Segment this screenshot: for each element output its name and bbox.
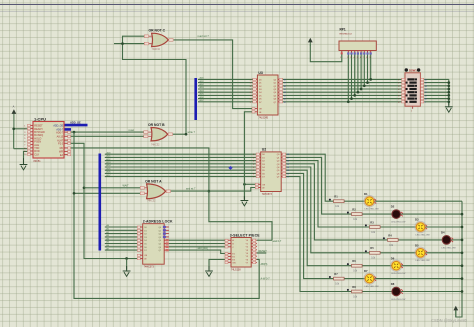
wire RP1 pin 8 drop [367,54,369,83]
wire LED D2 to collector [401,213,462,215]
resistor R8 [347,285,362,299]
junction RP1 drop 9 [369,78,372,81]
svg-text:3: 3 [253,157,254,159]
svg-text:A-W 0-7: A-W 0-7 [261,278,271,281]
svg-text:LED-YELLOW: LED-YELLOW [365,209,380,211]
ground below U2 [243,196,245,201]
svg-text:Q2: Q2 [159,234,162,236]
wire CPU RD to select-piece column [70,148,273,240]
bus vertical AD bus [194,78,197,120]
junction RP1 drop 7 [363,84,366,87]
wire U3 LE to ground column [244,112,252,200]
svg-text:11: 11 [284,102,286,104]
wire AD bus to U3 pin 6 [198,94,253,96]
wire U2 OE tap [244,183,256,185]
svg-text:CSDN @SkyLine80: CSDN @SkyLine80 [431,318,468,323]
svg-text:CLK: CLK [34,153,39,156]
svg-text:D2: D2 [259,86,262,88]
svg-text:U3: U3 [258,71,263,75]
wire AD bus to U3 pin 2 [198,82,253,84]
svg-text:4: 4 [250,86,251,88]
svg-text:7: 7 [24,145,25,147]
svg-text:1: 1 [24,125,25,127]
svg-text:EA: EA [60,154,64,157]
svg-text:ALE: ALE [34,144,39,147]
svg-text:74HC573: 74HC573 [262,193,273,196]
svg-text:R1: R1 [334,195,338,199]
wire CPU to OR NOT B input 1 [70,131,144,133]
cpu pin 3 left [28,131,33,133]
ground below DIP switch [448,103,450,107]
wire select piece RESET stub [257,252,266,254]
svg-text:4: 4 [253,161,254,163]
wire DIP switch pin 3 to ground rail [424,88,449,90]
svg-text:11: 11 [287,177,289,179]
svg-text:D2: D2 [144,234,147,236]
ground below CPU [23,158,25,165]
svg-text:13: 13 [287,170,289,172]
svg-text:D2: D2 [262,161,265,163]
wire data bus to address lock pin 5 [105,239,138,241]
svg-text:9: 9 [250,102,251,104]
svg-text:RESET: RESET [34,125,43,128]
cpu pin name texts left [34,125,45,157]
wire data bus to U2 pin 5 [105,166,256,168]
svg-text:D6: D6 [391,256,395,260]
svg-text:D4: D4 [441,231,445,235]
svg-text:12: 12 [284,99,286,101]
or-gate OR NOT B [151,128,173,141]
wire U2 Q5 staircase to LED row 6 [286,170,392,266]
svg-text:8: 8 [398,102,399,104]
svg-text:7: 7 [363,57,364,59]
LED D1 (yellow lit) [364,192,380,211]
or-gate OR NOT C [152,33,173,46]
wire RP1 common to VCC [310,45,342,62]
svg-text:ADD_OE: ADD_OE [53,125,63,128]
wire data bus to address lock pin 8 [105,249,138,251]
svg-text:7: 7 [398,99,399,101]
wire data bus to address lock pin 3 [105,233,138,235]
svg-text:R8: R8 [352,285,356,289]
cpu U1 body [33,122,64,159]
wire RP1 pin 3 drop [351,54,353,99]
svg-text:HOLD: HOLD [34,137,41,140]
svg-text:3: 3 [250,83,251,85]
wire CPU to OR NOT B input 2 [70,135,144,137]
svg-text:4: 4 [24,135,26,137]
wire data bus to address lock pin 1 [105,226,138,228]
svg-text:AD0-7: AD0-7 [56,131,64,134]
resistor R1 [329,195,344,209]
wire U3 B6 to DIP switch [283,98,402,100]
svg-text:8: 8 [250,99,251,101]
svg-text:LED-YELLOW: LED-YELLOW [365,286,380,288]
wire RP1 pin 4 drop [354,54,356,96]
wire DIP switch pin 1 to ground rail [424,82,449,84]
resistor R5 [365,246,380,260]
cpu pin 2 left [28,128,33,130]
svg-text:D7: D7 [364,269,368,273]
svg-text:12: 12 [425,92,427,94]
wire AD bus to U3 pin 1 [198,78,253,80]
svg-text:Q1: Q1 [277,157,280,159]
wire address lock Q1 to select piece [169,243,226,245]
svg-text:Q7: Q7 [159,250,162,252]
junction feeder to OR NOT A [83,186,86,189]
svg-text:D1: D1 [364,192,368,196]
svg-text:10k: 10k [371,232,376,234]
wire U3 B0 to DIP switch [283,78,402,80]
svg-text:R6: R6 [352,259,356,263]
svg-text:18: 18 [287,154,289,156]
svg-text:5: 5 [250,89,251,91]
cpu pin 1 left [28,124,33,126]
wire data bus to U2 pin 1 [105,153,256,155]
svg-text:write 7: write 7 [188,131,196,134]
svg-text:R5: R5 [370,246,374,250]
wire LED D6 to collector [401,265,462,267]
wire OR NOT C output to U3 OE [174,40,253,109]
svg-text:OR NOT A: OR NOT A [145,180,162,184]
svg-text:10k: 10k [353,271,358,273]
svg-text:2-ADRESS LOCK: 2-ADRESS LOCK [143,220,173,224]
svg-text:R4: R4 [388,233,392,237]
svg-text:9: 9 [253,177,254,179]
wire U2 Q3 staircase to LED row 4 [286,164,442,240]
wire LED D3 to collector [425,226,462,228]
LED D4 (off) [441,231,457,250]
svg-text:74HC32: 74HC32 [147,201,156,203]
svg-text:LED-YELLOW: LED-YELLOW [391,273,406,275]
svg-text:WR: WR [59,151,63,154]
LED D5 (yellow lit) [415,243,431,262]
svg-text:1: 1 [340,57,341,59]
LED D3 (yellow lit) [415,218,431,237]
LED D6 (yellow lit) [391,256,407,275]
wire DIP switch pin 0 to ground rail [424,78,449,80]
cpu pin 4 left [28,134,33,136]
bus ADD_OE from CPU [62,124,88,127]
svg-text:RD: RD [60,147,64,150]
svg-text:74LS245: 74LS245 [258,116,268,119]
LED D2 (off) [391,205,407,224]
svg-text:6: 6 [250,92,251,94]
svg-text:E1: E1 [232,254,234,256]
svg-text:3: 3 [398,86,399,88]
svg-text:15: 15 [284,89,286,91]
svg-text:6: 6 [24,141,26,143]
svg-text:5: 5 [24,138,26,140]
wire RP1 pin 5 drop [357,54,359,93]
svg-text:14: 14 [284,92,286,94]
junction RP1 drop 4 [353,94,356,97]
cpu pin 33 right [64,142,70,144]
wire CPU power rail to pin row [13,129,15,149]
wire OR NOT B output [173,133,186,135]
junction RP1 drop 3 [350,97,353,100]
svg-text:18: 18 [284,79,286,81]
resistor R7 [329,272,344,286]
junction collector row 8 [461,290,464,293]
wire RP1 pin 6 drop [360,54,362,90]
wire data bus to U2 pin 4 [105,163,256,165]
svg-text:10k: 10k [335,206,340,208]
svg-text:1: 1 [411,110,412,112]
wire U2 Q4 staircase to LED row 5 [286,167,416,253]
svg-text:BUSRQ: BUSRQ [34,134,43,137]
svg-text:4: 4 [398,89,399,91]
wire AD bus to U3 pin 5 [198,91,253,93]
junction collector row 2 [461,213,464,216]
wire data bus to U2 pin 7 [105,172,256,174]
wire U2 Q1 staircase to LED row 2 [286,157,392,214]
junction RP1 drop 2 [347,100,350,103]
cpu pin 34 right [64,147,70,149]
svg-text:10k: 10k [353,296,358,298]
wire U3 B1 to DIP switch [283,82,402,84]
svg-text:D1: D1 [144,230,147,232]
cpu pin 8 left [28,147,33,149]
wire feeder branch to OR NOT A input 1 [84,187,140,189]
svg-text:Q2: Q2 [274,86,277,88]
svg-text:Y2: Y2 [246,247,248,249]
svg-text:LED-YELLOW: LED-YELLOW [416,234,431,236]
svg-text:74LS138: 74LS138 [231,268,241,271]
svg-text:74HC32: 74HC32 [152,49,161,51]
svg-text:74HC573: 74HC573 [144,266,155,269]
svg-text:D1: D1 [259,83,262,85]
svg-text:Y1: Y1 [246,243,248,245]
junction OR NOT C inputs [121,42,124,45]
wire data bus to U2 pin 6 [105,169,256,171]
svg-text:17: 17 [287,157,289,159]
wire U3 B2 to DIP switch [283,85,402,87]
resistor R4 [383,233,398,247]
svg-text:7: 7 [253,170,254,172]
svg-text:Q1: Q1 [159,230,162,232]
wire data bus to address lock pin 6 [105,243,138,245]
svg-text:D8: D8 [391,282,395,286]
wire LED D1 to collector [374,200,462,202]
svg-text:OR NOT C: OR NOT C [149,29,166,33]
svg-text:5: 5 [253,164,254,166]
wire U2 Q2 staircase to LED row 3 [286,161,416,227]
wire U2 Q0 staircase to LED row 1 [286,154,365,201]
svg-text:10k: 10k [389,245,394,247]
svg-text:9: 9 [425,102,426,104]
svg-text:A: A [13,105,15,109]
svg-text:16: 16 [425,79,427,81]
wire U2 Q7 staircase to LED row 8 [286,177,392,292]
svg-text:DSW1: DSW1 [409,69,417,73]
svg-text:LED-YELLOW: LED-YELLOW [391,222,406,224]
junction CPU power rail [12,127,15,130]
svg-text:D7: D7 [259,102,262,104]
wire select piece E2 with ground [209,259,226,269]
svg-text:2: 2 [250,79,251,81]
svg-text:3: 3 [24,132,26,134]
wire DIP switch pin 6 to ground rail [424,98,449,100]
svg-text:5: 5 [398,92,399,94]
junction DIP ground rail [447,94,450,97]
svg-text:13: 13 [425,89,427,91]
svg-text:3-SELECT PIECE: 3-SELECT PIECE [230,233,260,237]
junction collector row 6 [461,264,464,267]
svg-text:11: 11 [425,95,427,97]
svg-text:ALAT: ALAT [57,139,64,142]
wire data bus to address lock pin 2 [105,229,138,231]
svg-text:RP1: RP1 [340,28,346,32]
svg-text:7: 7 [250,95,251,97]
junction DIP ground rail [447,100,450,103]
cpu pin 32 right [64,139,70,141]
wire data bus to U2 pin 8 [105,176,256,178]
svg-text:6: 6 [253,167,254,169]
svg-text:14: 14 [425,86,427,88]
svg-text:D1: D1 [262,157,265,159]
svg-text:15: 15 [287,164,289,166]
svg-text:WAIT: WAIT [123,184,130,187]
ic U3 latch [250,71,286,120]
junction U2 OE on ground column [243,183,246,186]
svg-text:16: 16 [284,86,286,88]
svg-text:LED-YELLOW: LED-YELLOW [391,299,406,301]
or-gate OR NOT C input pins [144,35,152,45]
svg-text:D3: D3 [415,218,419,222]
ground below address lock [126,266,128,271]
LED D8 (off) [391,282,407,301]
svg-text:R7: R7 [334,272,338,276]
svg-text:R3: R3 [370,220,374,224]
svg-text:P2.0: P2.0 [58,143,64,146]
junction DIP ground rail [447,84,450,87]
junction RP1 drop 6 [360,88,363,91]
svg-text:D7: D7 [262,177,265,179]
svg-text:17: 17 [284,83,286,85]
or-gate OR NOT B input pins [144,131,152,138]
junction RP1 drop 5 [357,91,360,94]
junction OR NOT B output [185,133,188,136]
cpu pin 10 left [28,153,33,155]
or-gate OR NOT A input pins [140,187,147,195]
svg-text:add (low): add (low) [198,247,208,250]
svg-text:A8:15: A8:15 [57,136,64,139]
or-gate OR NOT A [147,184,171,199]
svg-text:TXD: TXD [34,147,39,150]
svg-text:2: 2 [24,129,25,131]
ic U2 latch [253,148,289,196]
ic U5 select piece decoder [225,233,260,271]
wire U2 Q6 staircase to LED row 7 [286,173,365,278]
power terminal VCC near CPU [13,113,15,129]
junction collector row 3 [461,226,464,229]
svg-text:R2: R2 [352,208,356,212]
svg-text:ADD_OE: ADD_OE [70,121,81,125]
wire data bus to U2 pin 3 [105,160,256,162]
wire select piece Y0 feed [257,239,272,241]
wire to ground below address lock [126,259,128,270]
wire address lock Q2 to select piece [169,246,226,248]
cpu pin 31 right [64,135,70,137]
dip switch DSW1 [398,68,427,112]
junction address lock ground tap [125,257,128,260]
svg-text:10k: 10k [335,284,340,286]
wire data bus to address lock pin 4 [105,236,138,238]
svg-text:1-CPU: 1-CPU [34,117,46,122]
svg-text:2: 2 [347,57,348,59]
svg-text:15: 15 [425,83,427,85]
svg-text:80C51: 80C51 [34,160,42,163]
svg-text:LED-YELLOW: LED-YELLOW [416,260,431,262]
wire RP1 pin 9 drop [370,54,372,80]
wire LED D8 to collector [401,291,462,293]
junction DIP ground rail [447,81,450,84]
resistor R6 [347,259,362,273]
wire CPU ALE to vertical feeder [70,143,138,258]
svg-text:Q2: Q2 [277,161,280,163]
svg-text:6: 6 [398,95,399,97]
wire CPU ground pin [24,151,29,164]
svg-text:74HC32: 74HC32 [151,145,160,147]
junction collector row 4 [461,239,464,242]
svg-text:13: 13 [284,95,286,97]
junction collector row 5 [461,251,464,254]
bus stub below ADD_OE [62,128,71,131]
cpu pin 6 left [28,140,33,142]
svg-text:12: 12 [287,173,289,175]
junction at OR NOT A output [208,190,211,193]
svg-text:10k: 10k [371,258,376,260]
svg-text:PSEN: PSEN [34,141,41,144]
junction RP1 drop 8 [366,81,369,84]
svg-text:LED-YELLOW: LED-YELLOW [442,247,457,249]
cpu pin 36 right [64,154,70,156]
no-connect marker diamond [228,166,232,170]
wire AD bus to U3 pin 7 [198,98,253,100]
svg-text:E2: E2 [232,256,234,258]
svg-text:RESPACK-8: RESPACK-8 [340,33,353,36]
svg-text:8: 8 [253,173,254,175]
svg-text:14: 14 [287,167,289,169]
cpu pin 7 left [28,144,33,146]
LED D7 (yellow lit) [364,269,380,288]
svg-text:RXD: RXD [34,150,39,153]
wire DIP ground rail [448,79,450,105]
svg-text:10k: 10k [353,219,358,221]
wire U3 B5 to DIP switch [283,94,402,96]
wire DIP switch pin 2 to ground rail [424,85,449,87]
wire U3 B4 to DIP switch [283,91,402,93]
svg-text:Q7: Q7 [274,102,277,104]
cpu pin 30 right [64,131,70,133]
wire data bus to address lock pin 7 [105,246,138,248]
svg-text:READY: READY [34,128,43,131]
ic U4 address lock [137,220,173,269]
wire RP1 pin 2 drop [347,54,349,102]
wire LED D5 to collector [425,252,462,254]
bus vertical main data bus [99,154,102,251]
wire LED collector to power arrow [456,201,462,317]
svg-text:wait 0-7: wait 0-7 [273,240,282,243]
junction DIP ground rail [447,88,450,91]
cpu pin 9 left [28,150,33,152]
wire DIP switch pin 4 to ground rail [424,91,449,93]
wire CPU power rail to RESET pin [14,128,28,130]
wire AD bus to U3 pin 4 [198,88,253,90]
power terminal VCC at RP1 [309,41,311,46]
cpu pin 35 right [64,150,70,152]
